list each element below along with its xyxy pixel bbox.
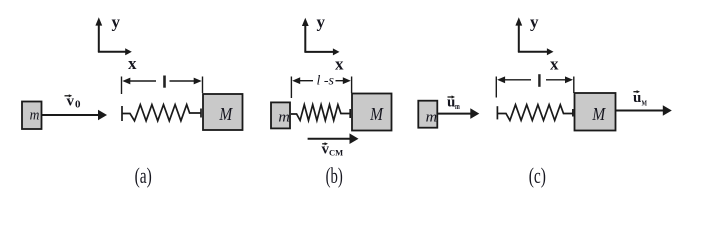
svg-text:v: v [67, 94, 75, 110]
svg-text:m: m [426, 110, 438, 126]
svg-text:y: y [317, 13, 326, 32]
svg-text:(b): (b) [326, 163, 343, 188]
svg-text:(c): (c) [529, 163, 546, 188]
svg-text:M: M [369, 104, 384, 124]
svg-text:(a): (a) [135, 163, 152, 188]
svg-text:m: m [455, 102, 460, 111]
svg-text:y: y [530, 13, 539, 32]
svg-text:x: x [335, 55, 344, 74]
svg-text:M: M [642, 98, 648, 107]
svg-text:m: m [278, 110, 290, 126]
svg-text:x: x [550, 55, 559, 74]
svg-text:CM: CM [329, 148, 343, 158]
svg-text:0: 0 [75, 99, 81, 111]
svg-text:x: x [128, 54, 137, 73]
svg-text:u: u [633, 90, 641, 106]
svg-text:l -s: l -s [317, 74, 335, 89]
svg-text:m: m [30, 108, 40, 124]
svg-text:M: M [219, 104, 234, 124]
svg-text:M: M [592, 104, 607, 124]
svg-text:y: y [112, 12, 121, 31]
